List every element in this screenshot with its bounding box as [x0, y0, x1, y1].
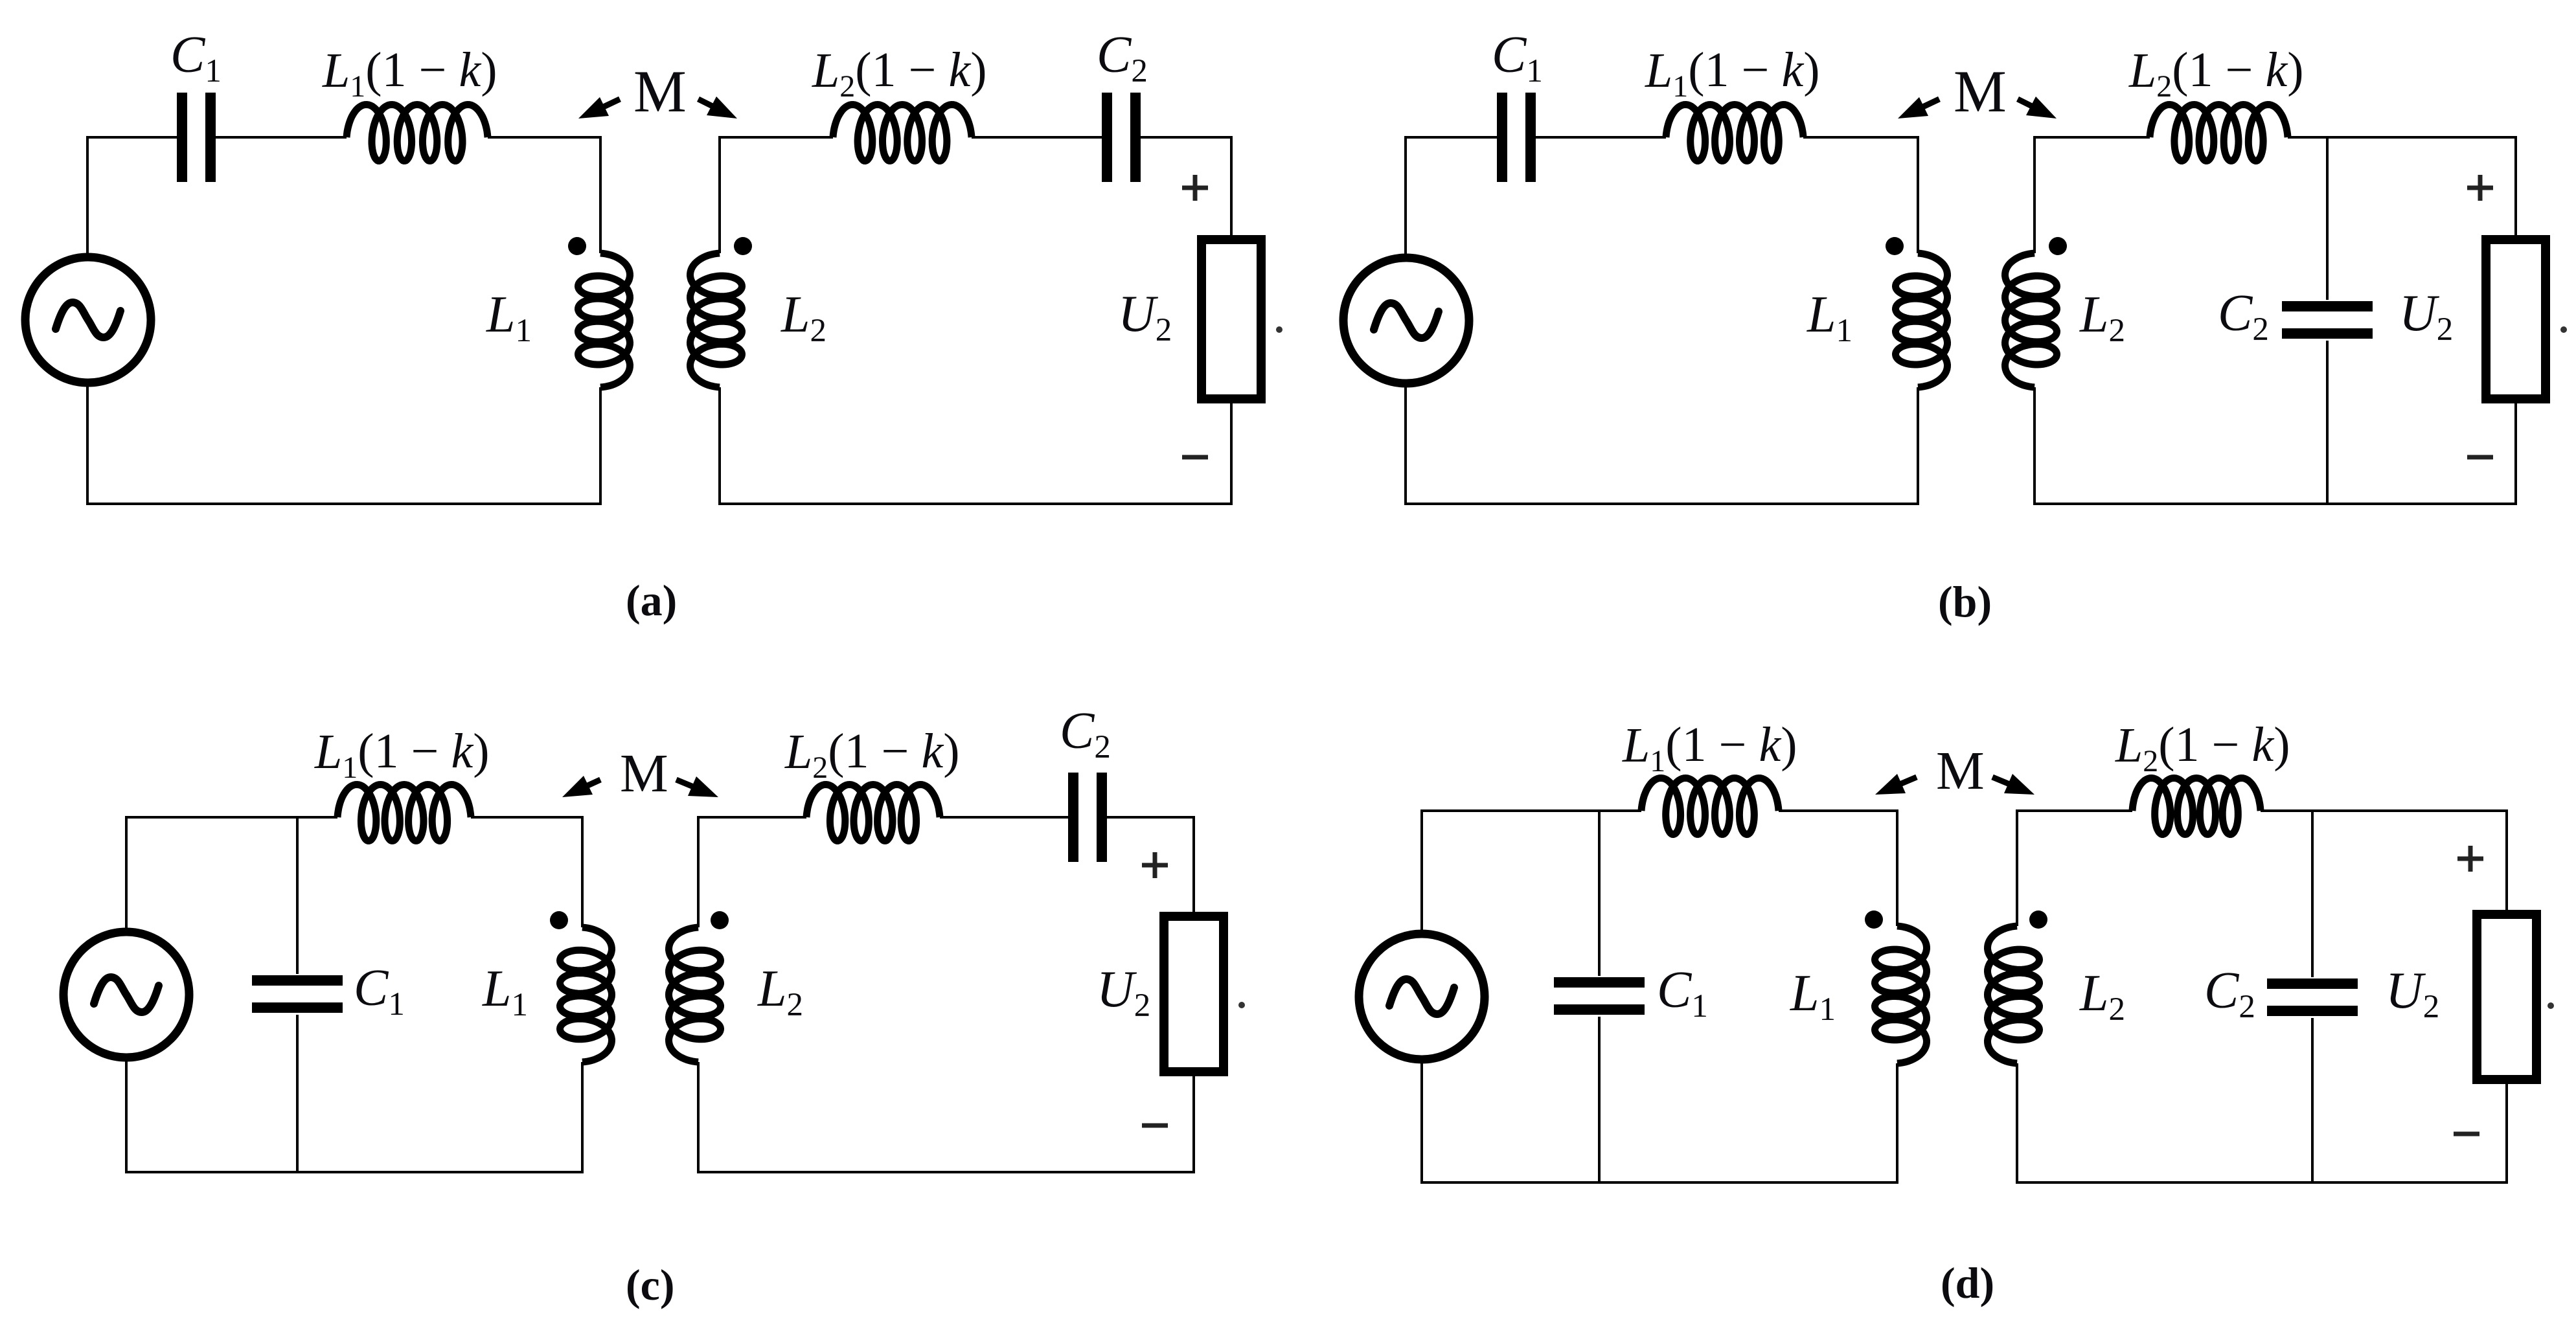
- wire: (b) primary bottom: [1404, 503, 1919, 505]
- load resistor U2 (c): [1164, 916, 1224, 1072]
- plus sign (c): [1142, 852, 1168, 878]
- capacitor C1 (d) parallel: [1554, 977, 1645, 1015]
- wire: (a) top left to C1: [86, 136, 177, 139]
- wire: (a) C2 to load corner: [1141, 136, 1233, 139]
- wire: (d) secondary bottom: [2017, 1181, 2508, 1184]
- wire: (d) load top lead: [2505, 809, 2508, 913]
- wire: (c) secondary coil bottom lead: [697, 1062, 700, 1173]
- phase dot secondary (c): [711, 911, 729, 929]
- stray dot (b): [2560, 326, 2567, 333]
- svg-text:L1(1 − k): L1(1 − k): [314, 724, 490, 785]
- load resistor U2 (d): [2477, 914, 2536, 1080]
- wire: (d) primary coil bottom lead: [1896, 1063, 1898, 1184]
- inductor L2(1-k) (c): [806, 785, 940, 841]
- phase dot primary (b): [1886, 237, 1904, 255]
- wire: (c) secondary coil top lead: [697, 816, 700, 927]
- wire: (d) primary coil top lead: [1896, 809, 1898, 926]
- wire: (c) load top lead: [1192, 816, 1195, 915]
- inductor L1(1-k) (b): [1666, 105, 1803, 161]
- wire: (b) C2 branch lower: [2326, 341, 2329, 505]
- circuit (b): series-parallel compensation: [1343, 27, 2567, 626]
- svg-text:(a): (a): [626, 576, 677, 625]
- wire: (d) primary bottom: [1420, 1181, 1898, 1184]
- wire: (c) primary bottom: [125, 1171, 584, 1173]
- plus sign (d): [2457, 846, 2483, 872]
- inductor L1(1-k) (c): [337, 785, 471, 841]
- wire: (b) primary coil top lead: [1917, 136, 1919, 253]
- mutual coupling arrow left (a): [578, 97, 620, 119]
- circuit (d): parallel-parallel compensation: [1359, 718, 2554, 1307]
- wire: (c) L1(1-k) to primary coil: [471, 816, 582, 819]
- wire: (a) primary bottom: [86, 503, 602, 505]
- stray dot (c): [1238, 1002, 1245, 1008]
- wire: (d) secondary coil top lead: [2016, 809, 2018, 926]
- mutual coupling arrow right (b): [2018, 96, 2057, 119]
- wire: (d) C2 branch upper: [2311, 809, 2314, 977]
- wire: (c) primary coil bottom lead: [581, 1062, 584, 1173]
- capacitor C2 (d) parallel: [2267, 978, 2358, 1016]
- capacitor C1 (c) parallel: [252, 975, 343, 1013]
- wire: (b) top left to C1: [1404, 136, 1497, 139]
- transformer secondary coil L2 (c): [669, 927, 721, 1062]
- wire: (a) primary coil top lead: [599, 136, 602, 253]
- svg-text:M: M: [633, 58, 687, 124]
- svg-text:M: M: [1954, 58, 2007, 124]
- circuit (c): parallel-series compensation: [63, 703, 1245, 1309]
- wire: (c) C1 branch upper: [296, 816, 299, 974]
- svg-text:L1(1 − k): L1(1 − k): [322, 43, 497, 104]
- wire: (d) L2(1-k) to load corner: [2261, 809, 2508, 812]
- wire: (c) L2(1-k) to C2: [940, 816, 1068, 819]
- wire: (c) left vertical upper: [125, 816, 128, 933]
- transformer primary coil L1 (b): [1896, 253, 1948, 387]
- phase dot secondary (d): [2029, 910, 2047, 929]
- mutual coupling arrow left (c): [562, 776, 600, 797]
- wire: (c) C2 to load corner: [1107, 816, 1195, 819]
- wire: (a) C1 to L1(1-k): [216, 136, 347, 139]
- wire: (c) primary coil top lead: [581, 816, 584, 927]
- wire: (b) L2(1-k) to load corner: [2288, 136, 2517, 139]
- wire: (b) L1(1-k) to primary coil: [1803, 136, 1918, 139]
- wire: (d) left vertical upper: [1420, 809, 1423, 934]
- mutual coupling arrow right (c): [676, 776, 718, 797]
- wire: (d) C2 branch lower: [2311, 1018, 2314, 1184]
- wire: (d) top left to L1(1-k): [1420, 809, 1641, 812]
- wire: (b) secondary top to L2(1-k): [2033, 136, 2150, 139]
- wire: (d) load bottom lead: [2505, 1081, 2508, 1184]
- minus sign (a): [1182, 455, 1208, 460]
- wire: (b) secondary coil bottom lead: [2033, 387, 2036, 505]
- stray dot (d): [2548, 1002, 2554, 1009]
- wire: (b) C1 to L1(1-k): [1536, 136, 1666, 139]
- svg-text:L1(1 − k): L1(1 − k): [1622, 718, 1797, 778]
- wire: (a) secondary bottom: [720, 503, 1233, 505]
- wire: (a) secondary coil top lead: [718, 136, 721, 253]
- wire: (a) load bottom lead: [1230, 400, 1233, 505]
- svg-text:L1(1 − k): L1(1 − k): [1645, 43, 1820, 104]
- minus sign (c): [1142, 1124, 1168, 1128]
- wire: (a) primary coil bottom lead: [599, 387, 602, 505]
- wire: (a) L1(1-k) to primary coil: [488, 136, 600, 139]
- stray dot (a): [1276, 326, 1282, 333]
- wire: (b) load bottom lead: [2514, 400, 2517, 505]
- phase dot primary (d): [1865, 910, 1883, 929]
- transformer secondary coil L2 (a): [690, 253, 742, 387]
- wire: (a) load top lead: [1230, 136, 1233, 238]
- wire: (d) C1 branch upper: [1598, 809, 1601, 976]
- minus sign (d): [2454, 1132, 2479, 1136]
- minus sign (b): [2467, 455, 2493, 460]
- mutual coupling arrow left (b): [1898, 97, 1939, 119]
- transformer primary coil L1 (d): [1875, 926, 1927, 1063]
- svg-text:(c): (c): [626, 1260, 675, 1309]
- wire: (b) primary coil bottom lead: [1917, 387, 1919, 505]
- wire: (d) C1 branch lower: [1598, 1017, 1601, 1184]
- plus sign (a): [1182, 175, 1208, 201]
- svg-text:M: M: [1936, 741, 1985, 801]
- svg-text:L2(1 − k): L2(1 − k): [2115, 718, 2290, 778]
- wire: (a) secondary coil bottom lead: [718, 387, 721, 505]
- wire: (d) left vertical lower: [1420, 1059, 1423, 1184]
- wire: (c) C1 branch lower: [296, 1015, 299, 1173]
- inductor L2(1-k) (b): [2150, 105, 2288, 161]
- circuit (a): series-series compensation: [25, 27, 1282, 625]
- wire: (a) left vertical lower: [86, 383, 89, 505]
- inductor L2(1-k) (a): [833, 105, 972, 161]
- AC source (c): [63, 932, 189, 1057]
- wire: (d) L1(1-k) to primary coil: [1779, 809, 1897, 812]
- wire: (b) secondary bottom: [2035, 503, 2517, 505]
- capacitor C2 (a) series: [1102, 93, 1141, 182]
- svg-text:(d): (d): [1941, 1258, 1994, 1307]
- svg-text:(b): (b): [1938, 577, 1992, 626]
- inductor L2(1-k) (d): [2132, 778, 2261, 835]
- transformer primary coil L1 (c): [560, 927, 612, 1062]
- AC source (a): [25, 257, 151, 383]
- phase dot secondary (b): [2049, 237, 2067, 255]
- wire: (b) left vertical lower: [1404, 384, 1407, 505]
- load resistor U2 (a): [1202, 240, 1261, 399]
- AC source (b): [1343, 258, 1469, 383]
- load resistor U2 (b): [2486, 240, 2546, 399]
- mutual coupling arrow right (d): [1992, 774, 2035, 795]
- wire: (c) left vertical lower: [125, 1057, 128, 1173]
- AC source (d): [1359, 934, 1485, 1059]
- mutual coupling arrow left (d): [1875, 774, 1917, 795]
- phase dot primary (a): [568, 237, 586, 255]
- wire: (b) C2 branch upper: [2326, 136, 2329, 300]
- plus sign (b): [2467, 175, 2493, 201]
- capacitor C2 (c) series: [1068, 773, 1107, 862]
- capacitor C2 (b) parallel: [2282, 301, 2373, 339]
- transformer secondary coil L2 (b): [2005, 253, 2057, 387]
- wire: (b) secondary coil top lead: [2033, 136, 2036, 253]
- wire: (c) secondary top to L2(1-k): [697, 816, 806, 819]
- wire: (c) top left to L1(1-k): [125, 816, 337, 819]
- inductor L1(1-k) (a): [347, 105, 488, 161]
- svg-text:L2(1 − k): L2(1 − k): [2128, 43, 2304, 104]
- wire: (a) L2(1-k) to C2: [972, 136, 1102, 139]
- phase dot primary (c): [550, 911, 568, 929]
- transformer secondary coil L2 (d): [1988, 926, 2040, 1063]
- wire: (b) left vertical upper: [1404, 136, 1407, 257]
- wire: (a) left vertical upper: [86, 136, 89, 256]
- capacitor C1 (a) series: [177, 93, 216, 182]
- inductor L1(1-k) (d): [1641, 778, 1779, 835]
- svg-text:L2(1 − k): L2(1 − k): [812, 43, 987, 104]
- wire: (c) load bottom lead: [1192, 1073, 1195, 1173]
- svg-text:M: M: [620, 743, 668, 804]
- phase dot secondary (a): [734, 237, 752, 255]
- wire: (b) load top lead: [2514, 136, 2517, 238]
- capacitor C1 (b) series: [1497, 93, 1536, 182]
- wire: (d) secondary coil bottom lead: [2016, 1063, 2018, 1184]
- svg-text:L2(1 − k): L2(1 − k): [784, 724, 960, 785]
- wire: (a) secondary top to L2(1-k): [718, 136, 833, 139]
- mutual coupling arrow right (a): [698, 96, 737, 119]
- wire: (d) secondary top to L2(1-k): [2016, 809, 2132, 812]
- wire: (c) secondary bottom: [698, 1171, 1195, 1173]
- transformer primary coil L1 (a): [578, 253, 630, 387]
